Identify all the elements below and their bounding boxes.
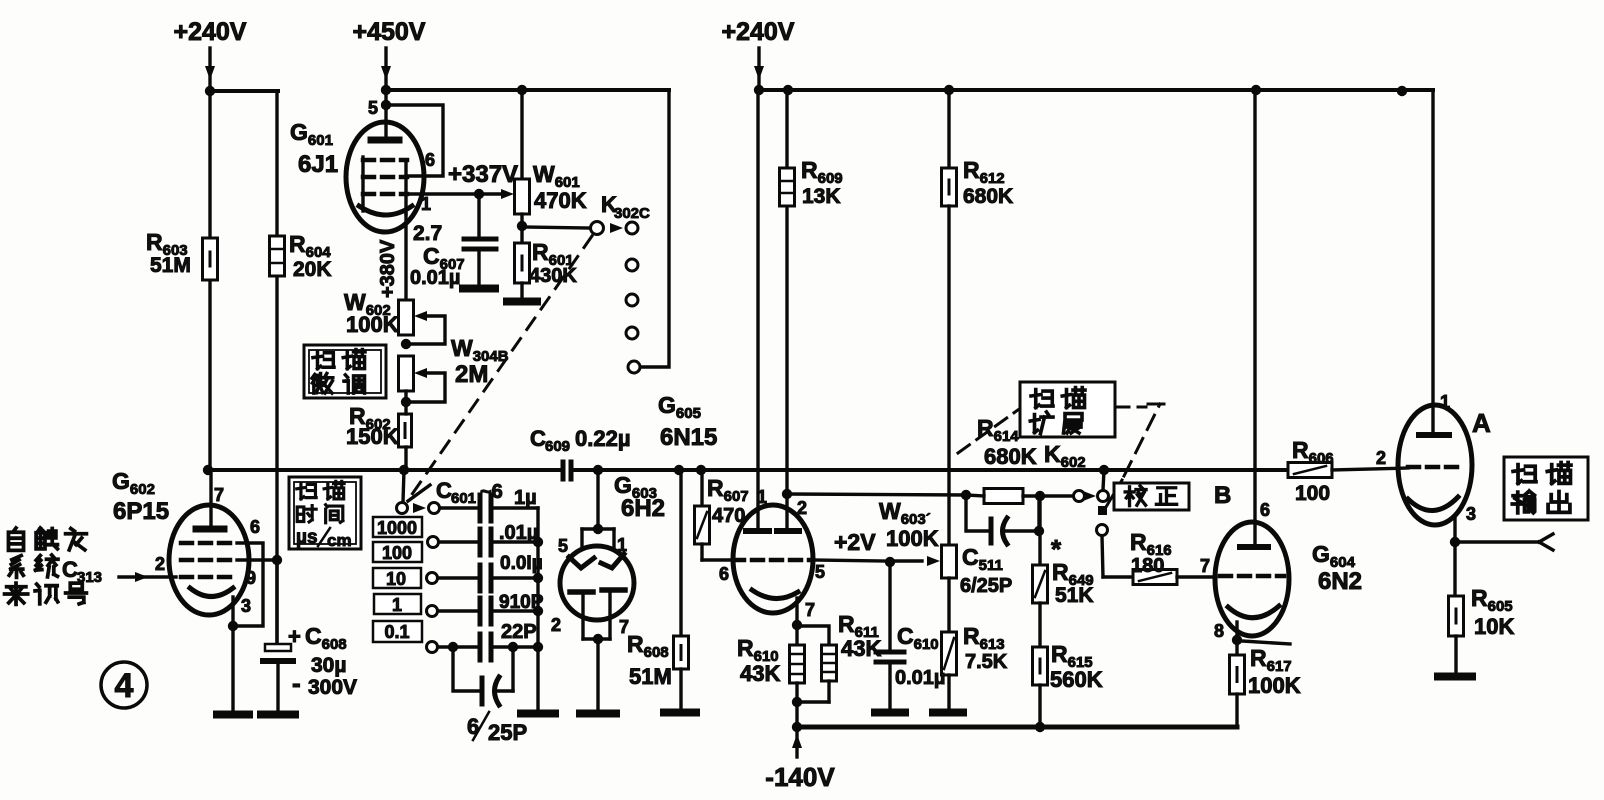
resistor R614 680K: [984, 489, 1023, 504]
svg-text:20K: 20K: [293, 258, 332, 281]
svg-text:.01µ: .01µ: [499, 522, 538, 544]
svg-text:30µ: 30µ: [311, 654, 346, 677]
svg-text:609: 609: [545, 438, 570, 455]
svg-text:100K: 100K: [1248, 673, 1301, 698]
tube U G605 6N15 envelope: [733, 505, 813, 613]
ground C610: [875, 709, 905, 717]
svg-text:2M: 2M: [455, 361, 488, 388]
potentiometer W603 100K: [942, 545, 957, 578]
label sweep-expand box 扫描扩展: [1020, 382, 1115, 437]
wire main sweep bus left: [208, 468, 559, 472]
cathode G604 arc: [1228, 606, 1279, 618]
wire main sweep bus right: [575, 468, 1288, 472]
ground G602 cathode: [217, 711, 249, 719]
switch contact row4: [427, 606, 438, 617]
potentiometer W602 100K: [399, 300, 414, 335]
svg-text:100: 100: [1295, 482, 1330, 505]
potentiometer W601 470K: [520, 90, 523, 179]
svg-text:1: 1: [617, 535, 627, 555]
svg-text:C: C: [62, 557, 78, 582]
svg-text:180: 180: [1131, 555, 1164, 577]
pin 6 G601 screen loop: [390, 105, 443, 176]
resistor R603 51M: [203, 238, 218, 280]
svg-text:6: 6: [250, 517, 260, 537]
capacitor C608 30u electrolytic: [275, 560, 278, 645]
pin 5 G605 grid wire right: [811, 560, 886, 561]
resistor R601 430K: [515, 243, 530, 283]
svg-text:2: 2: [1376, 448, 1386, 468]
tube U A envelope: [1398, 405, 1472, 525]
switch K302C wiper: [522, 227, 590, 228]
svg-text:6H2: 6H2: [621, 495, 665, 522]
svg-text:2: 2: [797, 498, 807, 518]
switch K602 wiper contact: [1040, 494, 1073, 497]
plate bar G604: [1240, 544, 1268, 550]
svg-text:2: 2: [551, 615, 561, 635]
svg-text:6P15: 6P15: [113, 498, 169, 525]
svg-text:+: +: [288, 624, 301, 649]
label calibration box 校正: [1114, 483, 1189, 510]
gang dashed line K302C to C601 selector: [408, 236, 592, 500]
svg-text:300V: 300V: [308, 676, 357, 699]
ground R608: [664, 709, 696, 717]
svg-text:1: 1: [1440, 392, 1450, 412]
tube U G602 6P15 envelope: [169, 505, 249, 615]
switch K602 contact b: [1097, 525, 1108, 536]
switch contact row1: [429, 503, 440, 514]
cathode G602 arc: [190, 588, 233, 597]
wire +240V right top rail: [759, 88, 1433, 92]
resistor R611 43K: [797, 626, 829, 645]
svg-text:51K: 51K: [1055, 584, 1094, 607]
trimmer capacitor C606 6/25P: [453, 647, 478, 691]
wire G601 cathode to W602: [404, 214, 407, 300]
label sweep-time box 扫描时间 us/cm: [289, 477, 361, 549]
wire R603 branch vertical: [208, 91, 211, 470]
pin 6 G602 loop: [235, 543, 263, 626]
svg-text:1: 1: [757, 487, 767, 507]
capacitor C610 0.01u: [888, 562, 891, 650]
grid row tube A: [1408, 465, 1458, 470]
svg-text:7: 7: [1200, 556, 1210, 576]
ground R605: [1438, 673, 1472, 681]
capacitor C609 0.22u coupling: [561, 462, 566, 479]
switch K302C contact 5: [628, 361, 640, 373]
svg-text:680K: 680K: [963, 185, 1013, 208]
svg-text:6: 6: [467, 714, 479, 739]
svg-text:C: C: [530, 426, 546, 451]
switch K302C contact 4: [626, 327, 638, 339]
cathode G603 left: [570, 589, 593, 595]
wire sweep output: [1455, 540, 1539, 543]
wire G605 plate2/R609 line: [785, 90, 788, 531]
ground G603: [580, 710, 616, 718]
wire G601 plate lead: [384, 90, 387, 140]
capacitor C511 6/25P trimmer: [966, 495, 988, 531]
range box 1: [374, 594, 421, 614]
capacitor C601 1u: [440, 506, 477, 509]
wire grid to W601 wiper: [479, 192, 500, 195]
svg-text:6/25P: 6/25P: [960, 575, 1012, 597]
svg-text:51M: 51M: [150, 254, 191, 277]
wire cap bank common: [536, 508, 539, 709]
cathode G601 arc: [359, 206, 412, 215]
svg-text:680K: 680K: [984, 444, 1037, 469]
power -140V: [795, 732, 798, 757]
wire cathode network join: [797, 700, 829, 703]
svg-text:+240V: +240V: [174, 18, 247, 46]
svg-text:302C: 302C: [614, 205, 650, 222]
svg-text:1: 1: [392, 595, 402, 615]
wire plate2 output line: [787, 494, 966, 495]
label sweep-output box 扫描输出: [1504, 457, 1588, 520]
wire G605 plate1 to +240 rail: [756, 90, 759, 531]
switch K302C contact 2: [626, 259, 638, 271]
potentiometer W304B 2M: [399, 356, 414, 391]
grid row G605: [733, 558, 813, 563]
svg-text:5: 5: [558, 536, 568, 556]
capacitor C602 .01u: [439, 540, 477, 543]
svg-text:B: B: [1214, 482, 1231, 509]
resistor R617 100K: [1235, 640, 1238, 655]
svg-text:8: 8: [1214, 621, 1224, 641]
svg-text:6J1: 6J1: [298, 151, 338, 178]
svg-text:2: 2: [155, 554, 165, 574]
svg-text:1µ: 1µ: [514, 487, 537, 509]
grid rows G602: [181, 541, 237, 546]
svg-text:µs: µs: [296, 527, 318, 548]
stub G604 second section: [1242, 641, 1290, 644]
resistor R604 20K: [270, 236, 285, 276]
capacitor C607 0.01u: [477, 194, 480, 237]
resistor R612 680K: [947, 90, 950, 168]
switch contact row5: [427, 642, 438, 653]
svg-text:9: 9: [246, 568, 256, 588]
svg-text:cm: cm: [327, 531, 352, 550]
wire G602 plate lead: [209, 470, 212, 529]
wire R604 branch vertical: [275, 91, 278, 646]
svg-text:7: 7: [214, 485, 224, 505]
ground below C607: [463, 285, 495, 293]
svg-text:100K: 100K: [346, 312, 399, 337]
svg-text:6N15: 6N15: [660, 424, 717, 451]
plate bar G602: [196, 526, 224, 533]
wire top rail to tube A: [1431, 90, 1434, 435]
pin 7 G605: [795, 598, 798, 625]
switch contact row3: [427, 573, 438, 584]
svg-text:43K: 43K: [740, 661, 780, 686]
wire G604 plate lead: [1253, 90, 1256, 545]
switch K602 contact a: [1098, 491, 1109, 502]
svg-text:150K: 150K: [346, 424, 399, 449]
svg-text:+2V: +2V: [834, 529, 876, 555]
wire +450V rail: [385, 88, 669, 92]
svg-text:+337V: +337V: [448, 161, 518, 188]
svg-text:6: 6: [1260, 500, 1270, 520]
resistor R606 100: [1288, 463, 1332, 478]
wire G603 cathode to ground: [583, 637, 610, 640]
svg-text:+240V: +240V: [722, 18, 795, 46]
svg-text:10K: 10K: [1474, 614, 1514, 639]
svg-text:5: 5: [368, 98, 378, 118]
svg-text:100K: 100K: [886, 526, 939, 551]
svg-text:-140V: -140V: [765, 762, 835, 792]
pin 1 G601 grid wire: [406, 192, 479, 195]
ground below R601: [507, 298, 537, 306]
tube U G601 6J1 envelope: [346, 122, 424, 232]
resistor R602 150K: [399, 414, 412, 447]
grid row G604: [1220, 574, 1284, 579]
svg-text:1000: 1000: [377, 518, 417, 538]
resistor R649 51K: [1038, 496, 1041, 565]
switch contact row2: [428, 537, 439, 548]
label sweep-fine box 扫描微调: [304, 345, 386, 398]
svg-text:22P: 22P: [501, 621, 537, 643]
svg-text:0.01µ: 0.01µ: [410, 267, 460, 289]
svg-text:C: C: [436, 478, 452, 503]
switch K302C contact 3: [626, 294, 638, 306]
label trigger input text: [8, 528, 23, 550]
wire G603 plates to bus: [596, 470, 599, 529]
resistor R608 51M: [679, 470, 682, 636]
gang solid wiper arm: [408, 485, 430, 501]
cathode tube A arc: [1408, 497, 1458, 511]
wire -140V rail: [797, 725, 1237, 730]
resistor R615 560K: [1038, 603, 1041, 647]
svg-text:+380V: +380V: [377, 239, 399, 298]
svg-text:3: 3: [241, 596, 251, 616]
svg-text:100: 100: [382, 543, 412, 563]
wire G602 screen to R604: [237, 558, 277, 561]
svg-text:6: 6: [719, 564, 729, 584]
svg-text:6N2: 6N2: [1318, 568, 1362, 595]
svg-text:470K: 470K: [534, 188, 587, 213]
gang dashed line K602: [1106, 480, 1122, 507]
ground R613: [933, 709, 963, 717]
range box 10: [373, 568, 421, 588]
svg-text:0.0Iµ: 0.0Iµ: [500, 553, 543, 574]
grid rows G601: [363, 158, 407, 163]
capacitor C603 0.01u: [438, 576, 477, 579]
cathode G605 arc: [752, 590, 798, 599]
svg-text:0.22µ: 0.22µ: [575, 426, 631, 451]
capacitor C605 22P: [438, 645, 453, 648]
svg-text:A: A: [1472, 408, 1491, 438]
svg-text:1: 1: [421, 194, 431, 214]
resistor R610 43K: [795, 625, 798, 645]
wire G602 cathode: [231, 597, 234, 626]
plate G603 left: [569, 557, 594, 568]
wire +240V left rail: [210, 89, 278, 93]
svg-text:0.01µ: 0.01µ: [895, 667, 945, 689]
tube U G603 6H2 diode envelope: [560, 546, 634, 620]
range box 0.1: [373, 621, 422, 642]
svg-text:5: 5: [815, 562, 825, 582]
resistor R609 13K: [780, 168, 795, 206]
svg-text:13K: 13K: [802, 185, 841, 208]
sheet number circled 4: [101, 662, 147, 708]
resistor R613 7.5K: [942, 632, 957, 675]
switch C601 selector wiper: [403, 470, 404, 502]
svg-text:-: -: [292, 668, 301, 698]
svg-text:6: 6: [425, 150, 435, 170]
range box 100: [373, 542, 422, 562]
cathode G603 right: [602, 587, 625, 593]
svg-text:4: 4: [115, 667, 134, 705]
svg-text:51M: 51M: [629, 664, 672, 689]
plate bars G605: [746, 528, 769, 534]
pin 2 G602 grid input: [119, 575, 176, 578]
svg-text:2.7: 2.7: [413, 222, 442, 245]
resistor R605 10K: [1453, 542, 1456, 596]
svg-text:560K: 560K: [1050, 667, 1103, 692]
capacitor C604 910P: [438, 609, 477, 612]
pin 6 G605 grid wire left: [702, 558, 735, 561]
wire grid to W603 wiper: [890, 559, 922, 562]
svg-text:43K: 43K: [841, 636, 881, 661]
svg-text:10: 10: [386, 569, 406, 589]
resistor R607 470: [700, 470, 703, 506]
svg-text:+450V: +450V: [353, 18, 426, 46]
svg-text:3: 3: [1466, 504, 1476, 524]
switch K602 contact mid: [1098, 506, 1107, 515]
svg-text:7: 7: [805, 600, 815, 620]
ground C608: [261, 711, 295, 719]
svg-text:7.5K: 7.5K: [965, 651, 1008, 673]
wire R606 to grid A: [1332, 468, 1408, 470]
tube U G604 6N2 envelope: [1215, 522, 1289, 636]
switch K302C contact 1: [626, 222, 638, 234]
ground cap bank: [521, 710, 555, 718]
wire K302C right feed: [641, 90, 669, 367]
plate G603 right: [601, 554, 624, 568]
svg-text:25P: 25P: [488, 720, 527, 745]
svg-text:0.1: 0.1: [384, 622, 409, 642]
plate bar tube A: [1419, 432, 1449, 438]
range box 1000: [373, 517, 422, 537]
svg-text:601: 601: [451, 490, 476, 507]
resistor R616 180: [1102, 536, 1103, 577]
